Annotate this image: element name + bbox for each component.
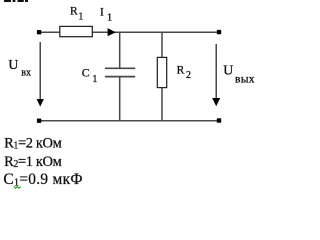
label R1 (70, 6, 83, 23)
svg-text:I: I (100, 7, 104, 19)
node output top terminal (217, 30, 221, 34)
svg-text:1: 1 (107, 13, 112, 24)
svg-text:вх: вх (21, 68, 31, 79)
grammar squiggle under C1 subscript (14, 186, 21, 188)
svg-text:R: R (177, 64, 185, 76)
svg-text:R: R (70, 6, 78, 18)
cropped heading text "2.12." (bottoms of glyphs at top edge) (4, 0, 28, 2)
svg-text:C: C (82, 65, 90, 79)
svg-text:U: U (223, 63, 233, 78)
output voltage arrow Uvyx (215, 44, 217, 99)
label Uvx (8, 57, 31, 79)
wire bottom horizontal (39, 120, 219, 122)
current arrow I1 (108, 28, 116, 36)
wire top horizontal (39, 31, 219, 33)
svg-text:2: 2 (186, 70, 191, 81)
svg-text:R1=2 кОм: R1=2 кОм (4, 136, 62, 152)
label C1 (82, 65, 98, 85)
svg-text:вых: вых (235, 73, 255, 85)
node input bottom terminal (37, 119, 41, 123)
resistor R1 (60, 26, 93, 36)
label R2 (177, 64, 191, 81)
svg-text:1: 1 (92, 74, 97, 85)
label I1 (100, 7, 112, 24)
svg-text:C1=0.9 мкФ: C1=0.9 мкФ (3, 171, 82, 188)
svg-text:R2=1 кОм: R2=1 кОм (4, 154, 62, 170)
node output bottom terminal (217, 118, 221, 122)
node input top terminal (37, 30, 41, 34)
resistor R2 (161, 32, 163, 57)
svg-text:U: U (8, 57, 18, 72)
label Uvyx (223, 63, 255, 86)
svg-text:1: 1 (78, 12, 83, 23)
capacitor C1 (105, 32, 135, 121)
input voltage arrow Uvx (39, 42, 41, 100)
